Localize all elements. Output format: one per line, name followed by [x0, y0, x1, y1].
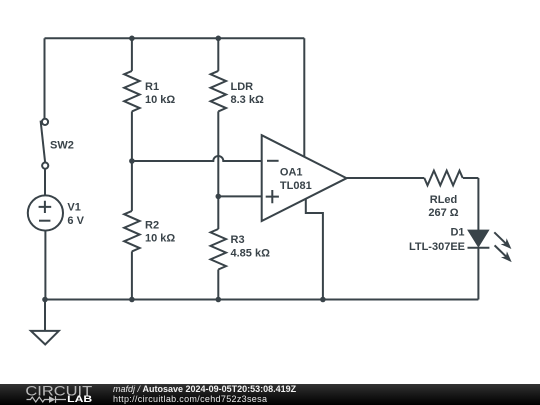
- LED emission arrow 2: [495, 245, 512, 262]
- svg-text:267 Ω: 267 Ω: [428, 207, 458, 219]
- svg-text:LAB: LAB: [67, 394, 92, 405]
- voltage source V1: [28, 195, 85, 230]
- wire op-amp output: [347, 177, 425, 179]
- svg-text:10 kΩ: 10 kΩ: [145, 94, 175, 106]
- svg-text:RLed: RLed: [430, 194, 458, 206]
- node junction negative supply ground: [320, 297, 326, 303]
- resistor RLed 267 ohm: [424, 171, 478, 219]
- svg-text:R3: R3: [231, 234, 245, 246]
- svg-text:R2: R2: [145, 220, 159, 232]
- svg-text:4.85 kΩ: 4.85 kΩ: [231, 248, 271, 260]
- node junction R1 R2 inverting input: [129, 158, 135, 164]
- ground: [31, 300, 59, 345]
- op-amp OA1 TL081: [262, 135, 347, 221]
- LED D1 LTL-307EE: [409, 227, 489, 254]
- wire noninverting input: [218, 195, 261, 197]
- wire bottom rail: [45, 299, 479, 301]
- svg-text:8.3 kΩ: 8.3 kΩ: [231, 94, 264, 106]
- wire negative supply pin: [306, 199, 323, 300]
- wire inverting input with hop: [132, 156, 262, 161]
- svg-text:TL081: TL081: [280, 180, 312, 192]
- resistor R2 10k: [124, 161, 175, 300]
- svg-text:LDR: LDR: [231, 81, 254, 93]
- resistor R1 10k: [124, 38, 175, 161]
- svg-text:V1: V1: [67, 202, 80, 214]
- LED emission arrow 1: [494, 232, 511, 249]
- node junction ground rail: [42, 297, 48, 303]
- node junction top LDR: [216, 36, 222, 42]
- wire top rail: [45, 37, 305, 39]
- svg-text:10 kΩ: 10 kΩ: [145, 233, 175, 245]
- node junction LDR R3 noninverting input: [216, 194, 222, 200]
- footer bar: [0, 384, 540, 405]
- svg-text:LTL-307EE: LTL-307EE: [409, 241, 465, 253]
- svg-text:OA1: OA1: [280, 166, 303, 178]
- footer autosave text: [113, 385, 296, 405]
- svg-text:6 V: 6 V: [67, 215, 84, 227]
- wire LED to bottom rail: [477, 248, 479, 300]
- svg-text:R1: R1: [145, 81, 159, 93]
- wire switch to V1: [44, 169, 46, 196]
- node junction top R1: [129, 36, 135, 42]
- wire positive supply pin: [303, 38, 305, 157]
- resistor R3 4.85k: [211, 196, 271, 299]
- switch SW2: [41, 119, 74, 169]
- wire V1 to bottom rail: [44, 231, 46, 300]
- svg-text:SW2: SW2: [50, 140, 74, 152]
- CircuitLab logo: [25, 384, 92, 405]
- photoresistor LDR 8.3k: [211, 38, 264, 196]
- node junction R3 bottom: [216, 297, 222, 303]
- node junction R2 bottom: [129, 297, 135, 303]
- wire right rail to LED: [477, 178, 479, 231]
- wire left rail upper: [44, 38, 46, 118]
- svg-text:D1: D1: [450, 227, 464, 239]
